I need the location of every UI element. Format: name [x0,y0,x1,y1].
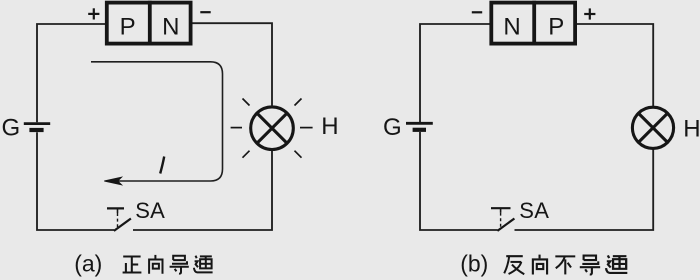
hanzi zheng 正 [123,257,142,273]
label I current [160,157,164,174]
svg-text:N: N [162,14,179,41]
svg-text:N: N [503,14,520,41]
diode PN junction block (a) [107,1,191,46]
polarity minus (a) [200,11,210,13]
hanzi dao 导 (b) [580,256,600,275]
switch SA (b) [491,208,514,231]
svg-text:G: G [383,114,402,141]
hanzi fan 反 [504,256,524,274]
svg-text:P: P [548,14,564,41]
hanzi tong 通 (a) [194,256,213,273]
current loop path with arrowhead (a) [91,62,223,181]
polarity plus (a) [88,8,99,19]
wire: diode N side right and down to lamp H top [193,23,273,106]
svg-text:(b): (b) [460,251,488,277]
svg-text:SA: SA [519,198,549,223]
hanzi bu 不 [555,256,575,274]
polarity minus (b) [472,11,482,13]
wire: switch SA to lamp H bottom (b) [515,149,654,230]
battery G (b) [406,123,433,130]
wire: battery G minus terminal down to bottom rail [37,132,114,230]
hanzi tong 通 (b) [606,255,627,273]
polarity plus (b) [584,8,595,19]
wire: diode P side right and down to lamp H top (b) [577,24,653,106]
wire: switch SA to lamp H bottom [133,150,272,230]
svg-text:(a): (a) [74,251,102,277]
svg-text:P: P [120,14,136,41]
svg-text:G: G [2,115,21,142]
svg-text:SA: SA [135,198,165,223]
hanzi xiang 向 (a) [149,255,162,274]
lamp H (b) [632,107,673,148]
wire: battery G plus terminal up and right to diode P side [37,24,105,122]
switch SA (a) [107,208,131,231]
wire: battery G minus terminal up and right to diode N side [420,24,490,122]
arrowhead of current I [104,177,121,185]
lamp H (a) [251,107,294,150]
wire: battery G down to bottom rail [420,132,498,230]
light rays around lamp H (a) [231,99,313,158]
hanzi xiang 向 (b) [533,255,547,275]
diode NP junction block (b) [491,1,575,46]
svg-text:H: H [683,115,700,142]
battery G (a) [24,124,50,130]
hanzi dao 导 (a) [170,256,189,274]
svg-text:H: H [321,113,338,140]
